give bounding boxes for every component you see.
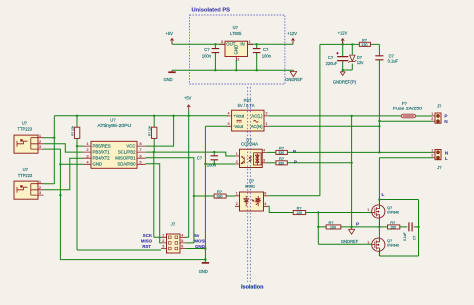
svg-text:IRF840: IRF840 — [387, 244, 399, 248]
svg-text:2: 2 — [162, 239, 164, 243]
resistor R? 100 gate-source — [326, 220, 341, 229]
svg-text:3: 3 — [39, 145, 41, 149]
svg-text:MOSI: MOSI — [194, 239, 205, 244]
svg-text:GNDREF(P): GNDREF(P) — [333, 79, 357, 84]
svg-text:U?: U? — [110, 118, 116, 123]
svg-text:2: 2 — [39, 140, 41, 144]
net label P — [294, 160, 298, 166]
svg-text:MISO/PB1: MISO/PB1 — [115, 156, 136, 161]
svg-text:L: L — [382, 192, 385, 198]
net label L output — [445, 156, 448, 162]
svg-text:U?: U? — [233, 25, 239, 30]
wire VCC to rail — [146, 116, 174, 146]
regulator U? L7805 — [220, 25, 254, 70]
svg-text:100n: 100n — [202, 53, 212, 58]
junction dots left section — [53, 115, 215, 261]
resistor R? 330 to net N — [267, 146, 288, 155]
junction dots right section — [317, 43, 420, 228]
wire MOC output to gates — [268, 206, 372, 244]
svg-text:GND: GND — [93, 162, 103, 167]
wire +5V rail to regulator — [172, 43, 225, 45]
wire TTP223 VCC vertical — [44, 116, 55, 184]
svg-text:ATtiny85-20PU: ATtiny85-20PU — [97, 123, 131, 128]
wire TTP1 out to PB3/XT1 — [44, 144, 84, 152]
connector J? input P N — [431, 103, 442, 123]
resistor R? 330 MOC LED — [214, 189, 235, 199]
wire AC L fused line — [269, 115, 433, 117]
wire +12V rail — [320, 43, 380, 45]
ground GNDREF at sources — [341, 227, 359, 244]
svg-text:5V / 0.7A: 5V / 0.7A — [238, 103, 255, 108]
svg-text:2: 2 — [431, 154, 433, 158]
svg-text:4: 4 — [264, 202, 266, 206]
fuse F? 2A/250 — [393, 101, 423, 118]
svg-text:120: 120 — [296, 211, 302, 215]
power +5V — [166, 31, 174, 44]
svg-text:5v: 5v — [194, 233, 199, 238]
svg-text:PB3/XT1: PB3/XT1 — [93, 150, 111, 155]
connector J? output N L — [431, 148, 442, 169]
svg-text:C?: C? — [263, 47, 269, 52]
svg-text:Fuse 2A/250: Fuse 2A/250 — [393, 105, 423, 110]
resistor R? 330 to net P — [267, 156, 288, 165]
svg-text:220uF: 220uF — [326, 61, 338, 66]
svg-text:-Vout: -Vout — [233, 124, 244, 129]
wire +5V vertical to ISP — [186, 116, 189, 238]
connector J? ISP header — [161, 222, 186, 253]
svg-text:+12V: +12V — [287, 31, 297, 36]
capacitor C? 100n right of regulator — [253, 44, 272, 70]
svg-text:7: 7 — [140, 148, 142, 152]
svg-text:3: 3 — [162, 245, 164, 249]
svg-text:VCC: VCC — [126, 144, 135, 149]
svg-text:+Vout: +Vout — [233, 114, 245, 119]
unisolated PS boundary box — [190, 8, 285, 85]
wire SDA/PB0 to ISP — [146, 164, 161, 243]
svg-text:2: 2 — [236, 160, 238, 164]
capacitor C? 0.1uF dropper — [375, 44, 398, 121]
svg-text:4: 4 — [181, 233, 183, 237]
ground GNDREF top right — [285, 70, 303, 82]
svg-text:R?: R? — [279, 146, 285, 151]
svg-text:1: 1 — [431, 148, 433, 152]
resistor R? pull-up left — [71, 116, 80, 146]
svg-text:J?: J? — [171, 222, 176, 227]
svg-text:5: 5 — [140, 160, 142, 164]
svg-text:GNDREF: GNDREF — [341, 239, 359, 244]
resistor R? 120 gate drive — [293, 206, 306, 215]
diode D? 12v zener — [348, 44, 364, 70]
svg-text:2: 2 — [236, 202, 238, 206]
capacitor C? 100n left of regulator — [202, 44, 219, 70]
svg-text:CQY84A: CQY84A — [241, 142, 258, 147]
svg-text:GND: GND — [195, 244, 205, 249]
junction dots top section — [214, 43, 258, 71]
svg-text:1: 1 — [87, 142, 89, 146]
svg-text:N: N — [444, 119, 448, 125]
svg-text:1: 1 — [367, 208, 369, 212]
svg-text:R? 10k: R? 10k — [148, 126, 152, 136]
svg-text:U?: U? — [23, 167, 29, 172]
capacitor C? 0.1uF snubber — [403, 222, 417, 241]
transistor Q? IRF840 lower — [367, 238, 399, 256]
svg-text:AC(N): AC(N) — [251, 124, 264, 129]
ground GNDREF(P) — [333, 70, 357, 84]
wire MISO/PB1 to ISP and MOC drive — [146, 158, 214, 243]
wire +5V rail — [54, 115, 228, 117]
svg-text:J?: J? — [437, 165, 442, 170]
wire RES pull-up and RST net — [77, 146, 161, 250]
net label 5v — [194, 233, 199, 238]
wire TTP2 out to PB4/XT2 — [44, 158, 84, 190]
svg-text:330: 330 — [278, 161, 284, 165]
net label L at mosfet — [382, 192, 385, 198]
svg-text:0.1uF: 0.1uF — [403, 232, 407, 240]
svg-text:4: 4 — [228, 112, 230, 116]
wire L net — [379, 158, 432, 256]
svg-text:330: 330 — [278, 151, 284, 155]
svg-text:3: 3 — [39, 191, 41, 195]
svg-text:5: 5 — [181, 239, 183, 243]
svg-text:TTP223: TTP223 — [18, 173, 33, 178]
svg-text:1: 1 — [367, 241, 369, 245]
svg-text:R?: R? — [279, 156, 285, 161]
svg-text:6: 6 — [140, 154, 142, 158]
svg-text:8: 8 — [140, 142, 142, 146]
net label GND isp — [195, 244, 205, 249]
svg-text:1: 1 — [266, 122, 268, 126]
svg-text:C?: C? — [413, 236, 417, 240]
svg-text:330: 330 — [217, 195, 223, 199]
svg-text:GND: GND — [199, 269, 208, 274]
svg-text:2: 2 — [237, 58, 239, 62]
svg-text:2: 2 — [266, 112, 268, 116]
wire connector pin2 to N vertical — [287, 121, 432, 152]
svg-text:150: 150 — [362, 43, 368, 47]
resistor R? 100 snubber — [388, 220, 400, 229]
svg-text:Isolation: Isolation — [241, 285, 264, 291]
wire common source net — [318, 218, 418, 238]
svg-text:6: 6 — [264, 192, 266, 196]
svg-text:4: 4 — [87, 160, 89, 164]
svg-text:U?: U? — [249, 178, 255, 183]
svg-text:6: 6 — [181, 245, 183, 249]
svg-text:2: 2 — [39, 186, 41, 190]
svg-text:1: 1 — [162, 233, 164, 237]
svg-text:SCL/PB2: SCL/PB2 — [118, 150, 136, 155]
resistor R? pull-up right — [148, 116, 157, 152]
svg-text:1: 1 — [249, 40, 251, 44]
svg-text:Q?: Q? — [387, 239, 392, 243]
power +12V — [287, 31, 297, 44]
svg-text:+12V: +12V — [338, 31, 348, 36]
svg-text:PB4/XT2: PB4/XT2 — [93, 156, 111, 161]
svg-text:R?: R? — [329, 220, 335, 225]
wire GND bus left — [44, 149, 206, 260]
net label P input — [444, 113, 448, 119]
wire SCL/PB2 to opto and SCK — [146, 152, 235, 237]
svg-text:MISO: MISO — [141, 239, 153, 244]
power +5V main rail symbol — [184, 96, 192, 116]
svg-text:GNDREF: GNDREF — [285, 77, 303, 82]
wire regulator to +12V — [248, 43, 294, 45]
svg-text:L7805: L7805 — [230, 31, 242, 36]
svg-text:+5V: +5V — [166, 31, 174, 36]
svg-text:SDA/PB0: SDA/PB0 — [117, 162, 136, 167]
svg-text:0.1uF: 0.1uF — [388, 59, 399, 64]
ground GND bottom — [199, 262, 209, 274]
wire GND rail top section — [172, 69, 293, 71]
svg-text:1: 1 — [39, 134, 41, 138]
svg-text:R?: R? — [297, 206, 303, 211]
svg-text:2: 2 — [87, 148, 89, 152]
svg-text:12v: 12v — [357, 60, 365, 65]
svg-text:2: 2 — [431, 117, 433, 121]
svg-text:J?: J? — [437, 103, 442, 108]
svg-text:R?: R? — [217, 189, 223, 194]
svg-text:RST: RST — [142, 244, 151, 249]
svg-text:U?: U? — [22, 121, 28, 126]
resistor R? 150 dropper — [359, 37, 370, 46]
svg-text:Q?: Q? — [387, 206, 392, 210]
net label N output — [445, 150, 449, 156]
power +12V AC side — [338, 31, 348, 45]
svg-text:3: 3 — [263, 159, 265, 163]
wire PS -Vout GND net vertical — [186, 126, 236, 262]
svg-text:R? 10k: R? 10k — [71, 126, 75, 136]
svg-text:C?: C? — [328, 55, 334, 60]
svg-text:1: 1 — [431, 112, 433, 116]
svg-text:L: L — [445, 156, 448, 162]
microcontroller U? ATtiny85-20PU — [83, 118, 146, 169]
svg-text:C?: C? — [197, 156, 203, 161]
capacitor C? 100n opto filter — [197, 152, 218, 167]
svg-text:3: 3 — [221, 40, 223, 44]
transistor Q? IRF840 upper — [367, 200, 399, 227]
net label MOSI — [194, 239, 205, 244]
svg-text:3: 3 — [228, 122, 230, 126]
net label RST — [142, 244, 151, 249]
touch sensor U? TTP223 upper — [14, 121, 44, 154]
svg-text:R?: R? — [390, 220, 396, 225]
net label N input — [444, 119, 448, 125]
net label MISO — [141, 239, 153, 244]
svg-text:SCK: SCK — [143, 233, 153, 238]
svg-text:1: 1 — [236, 192, 238, 196]
power module PS? 5V/0.7A — [227, 98, 269, 131]
wire P net vertical — [287, 116, 351, 227]
wire +12V feed to MOC pin6 — [268, 44, 320, 195]
svg-text:PB5/RES: PB5/RES — [93, 144, 111, 149]
svg-text:C?: C? — [204, 47, 210, 52]
svg-text:3: 3 — [87, 154, 89, 158]
isolation barrier dashed lines — [241, 87, 264, 291]
svg-text:4: 4 — [263, 148, 265, 152]
svg-text:100n: 100n — [262, 53, 272, 58]
net label SCK — [143, 233, 153, 238]
svg-text:100: 100 — [330, 225, 336, 229]
svg-text:IRF840: IRF840 — [387, 210, 399, 214]
svg-text:AC(L): AC(L) — [251, 114, 263, 119]
wire AC N line — [269, 125, 380, 127]
svg-text:1: 1 — [236, 152, 238, 156]
svg-text:TTP223: TTP223 — [18, 126, 33, 131]
svg-text:Unisolated PS: Unisolated PS — [192, 8, 231, 14]
ground GND top left — [164, 70, 176, 82]
capacitor C? 220uF — [326, 44, 349, 70]
svg-text:R?: R? — [362, 37, 368, 42]
optocoupler U? CQY84A — [235, 137, 267, 167]
svg-text:1: 1 — [39, 180, 41, 184]
touch sensor U? TTP223 lower — [14, 167, 44, 199]
svg-text:N: N — [445, 150, 449, 156]
net label P at sources — [356, 222, 360, 228]
svg-text:IN: IN — [240, 42, 244, 47]
svg-text:+5V: +5V — [184, 96, 192, 101]
net label N — [293, 149, 297, 155]
optocoupler U? MOC3021 — [235, 178, 268, 211]
svg-text:GND: GND — [233, 45, 238, 55]
svg-text:GND: GND — [164, 77, 173, 82]
svg-text:100: 100 — [390, 225, 396, 229]
